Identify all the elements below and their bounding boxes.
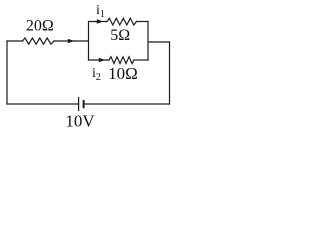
wire: parallel box right vertical <box>147 22 149 61</box>
battery V1 short plate <box>83 100 85 108</box>
wire: outer left vertical <box>6 41 8 104</box>
wire: bottom branch left segment <box>89 59 110 61</box>
wire: R1 to parallel node <box>54 40 89 42</box>
wire: right tap from parallel box to outer right <box>148 41 170 43</box>
wire: parallel box left vertical <box>88 22 90 61</box>
wire: top branch left segment <box>89 21 108 23</box>
svg-text:5Ω: 5Ω <box>110 27 130 44</box>
resistor R1 20Ω zigzag <box>23 38 55 44</box>
svg-text:10Ω: 10Ω <box>108 64 138 83</box>
wire: bottom branch right segment <box>134 59 148 61</box>
wire: bottom right segment from battery <box>84 103 170 105</box>
wire: outer right vertical <box>169 42 171 104</box>
resistor R2 5Ω zigzag <box>107 18 137 25</box>
wire: bottom left segment to battery <box>7 103 79 105</box>
svg-text:20Ω: 20Ω <box>26 18 54 35</box>
resistor R3 10Ω zigzag <box>109 57 134 64</box>
svg-text:10V: 10V <box>65 112 95 131</box>
wire: top-left horizontal before R1 <box>7 40 23 42</box>
wire: top branch right segment <box>137 21 149 23</box>
current arrow i2 on bottom branch <box>99 58 105 62</box>
battery V1 long plate <box>78 97 80 111</box>
current arrow i1 on top branch <box>97 19 103 23</box>
current arrow into node (main wire) <box>68 39 74 43</box>
